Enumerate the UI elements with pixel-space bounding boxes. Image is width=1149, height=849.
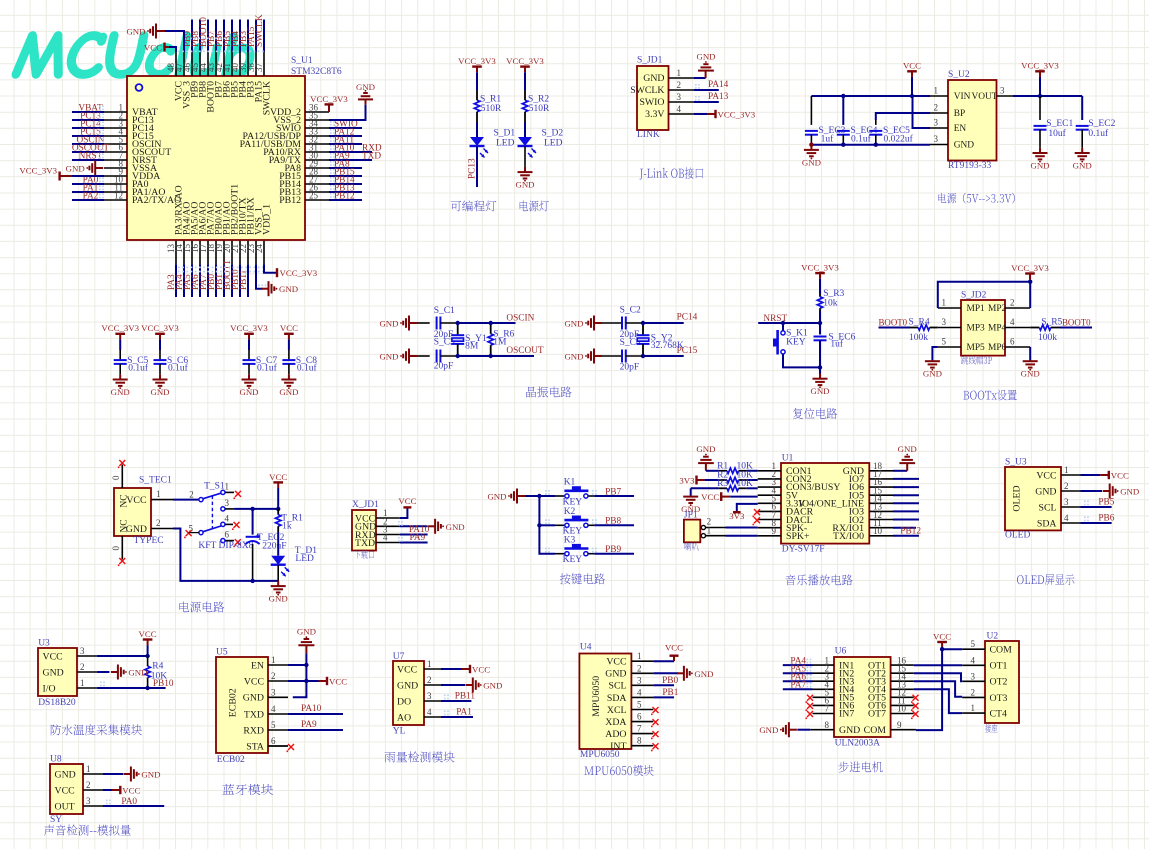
svg-text:GND: GND [810,386,829,396]
ground above U1 pin18 [893,470,907,472]
wire VCC_3V3 to S_C7 [248,339,250,350]
connector X_JD1 pin 4 TXD [376,542,400,544]
regulator S_U2 pin 1 VIN [930,95,948,97]
switch T_S1 pin 3 [225,508,234,510]
svg-text:24: 24 [254,244,264,254]
connector JP1 pin 1 [701,534,705,538]
svg-text:2: 2 [677,80,682,90]
imu U4 pin 4 SDA [632,696,654,698]
ground below S_JD2 pin6 [1029,359,1031,362]
music player U1 pin 11 RX/IO1 [869,527,893,529]
svg-text:S_C2: S_C2 [620,305,641,315]
mcu U1 pin 15 PA5/AO [191,241,193,265]
caption OLED display [1017,574,1074,585]
wire T_R1 to T_D1 [277,532,279,556]
svg-text:LED: LED [544,139,563,149]
wire U6 GND to ground [797,729,810,731]
driver U6 pin 5 IN5 [813,696,835,698]
wire VCC_3V3 to S_C6 [159,339,161,350]
capacitor S_C8 0.1uf [288,350,290,360]
svg-text:S_D1: S_D1 [494,129,516,139]
wire net PB4 above U1 [239,20,241,52]
power VCC_3V3 at U1 pin 36 [328,104,330,112]
mcu U1 pin 33 PA12/USB/DP [305,135,329,137]
caption power LED [520,200,549,211]
svg-text:3.3V: 3.3V [645,109,664,120]
wire net PA14 from S_JD1 pin2 [694,89,719,91]
driver U6 pin 11 OT6 [891,704,914,706]
svg-text:GND: GND [483,681,502,691]
svg-text:1: 1 [971,703,976,713]
svg-text:BOOT0: BOOT0 [1062,318,1091,328]
wires U1 IO pins right [893,478,919,480]
regulator S_U2 pin 2 BP [930,112,948,114]
ground left of S_C1 [409,322,417,324]
svg-text:5: 5 [942,337,947,347]
svg-text:VCC: VCC [1036,470,1056,481]
wire net PB7 from K1 [588,495,594,497]
wire S_U3 pin1 to VCC [1081,474,1101,476]
svg-text:20pF: 20pF [434,362,454,372]
connector X_JD1 pin 3 RXD [376,534,400,536]
svg-text:VCC_3V3: VCC_3V3 [19,166,57,176]
wire GND bus to S_U2 GND pin [811,144,930,146]
svg-text:VCC: VCC [398,496,416,506]
svg-text:GND: GND [239,387,258,397]
caption BOOTx setting [963,390,1016,401]
music player U1 pin 6 DACR [758,510,781,512]
bluetooth U5 pin 2 VCC [268,680,288,682]
driver U6 pin 1 IN1 [813,664,835,666]
svg-text:U2: U2 [987,632,999,642]
music player U1 pin 15 IO5 [869,494,893,496]
mcu U1 pin 2 PC13 [104,119,127,121]
mcu U1 pin 43 PB7 [215,52,217,77]
power VCC at U1 pin 48 [169,47,176,52]
svg-text:1: 1 [225,482,230,492]
imu U4 pin 8 INT [632,745,654,747]
wire net PA5 to U6 IN2 [783,672,813,674]
svg-text:SCL: SCL [609,681,627,692]
sensor U3 pin 1 I/O [77,687,97,689]
wire net PB1 below U1 pin 19 [223,264,225,297]
svg-text:3: 3 [934,134,939,144]
wire net VBAT to U1 pin 1 [72,111,104,113]
mcu U1 pin 21 PB10/TX [239,241,241,265]
wire net PC15 [643,355,684,357]
svg-text:0.1uf: 0.1uf [297,363,318,374]
connector S_JD1 pin 1 GND [669,77,695,79]
mcu U1 pin 26 PB13 [305,191,329,193]
mcu U1 pin 34 SWIO [305,127,329,129]
svg-text:S_R1: S_R1 [480,95,501,105]
power VCC above VIN [907,70,917,72]
svg-text:4: 4 [1064,513,1069,523]
capacitor S_EC5 0.022uf [875,120,877,125]
bluetooth U5 pin 4 TXD [268,713,288,715]
connector X_JD1 pin 1 VCC [376,517,400,519]
imu U4 pin 2 GND [632,672,654,674]
wire X_JD1 pin2 to ground [400,525,428,527]
no connect U6 IN5 IN6 IN7 [807,695,813,701]
svg-text:7: 7 [825,704,830,714]
svg-text:MP1: MP1 [967,304,986,314]
mcu U1 pin 10 PA0 [104,183,127,185]
svg-text:SCL: SCL [1039,502,1057,513]
caption music player circuit [785,574,852,585]
wire net PA8 from U1 pin 29 [329,167,362,169]
svg-text:PB0: PB0 [662,676,678,686]
svg-text:GND: GND [126,524,147,535]
svg-text:VCC: VCC [269,472,287,482]
no connect U6 OT5 OT6 OT7 [913,695,919,701]
svg-text:PC13: PC13 [468,158,478,179]
svg-text:STA: STA [246,741,264,752]
svg-text:2: 2 [1010,298,1015,308]
display S_U3 pin 3 SCL [1061,506,1081,508]
wire net NRST to U1 pin 7 [72,159,104,161]
wire U7 GND to ground [441,684,465,686]
svg-text:LED: LED [295,554,314,564]
wire U1 pin5 3.3V to 3V3 power [737,504,758,512]
wire S_JD2 pin6 to ground [1029,347,1031,360]
svg-text:PB11: PB11 [239,269,249,290]
svg-text:3: 3 [86,796,91,806]
ground left of keys [517,495,525,497]
svg-text:GND: GND [128,668,147,678]
imu U4 pin 7 ADO [632,733,654,735]
svg-text:0.1uf: 0.1uf [168,363,189,374]
svg-text:5: 5 [971,639,976,649]
wire VCC_3V3 to S_R3 [819,279,821,294]
mcu U1 pin 38 PA15 [255,52,257,77]
ground left of S_C2 [594,322,602,324]
mcu U1 pin 19 PB1/AO [223,241,225,265]
sensor U3 pin 3 VCC [77,655,97,657]
wire S_U3 pin2 to ground [1081,490,1103,492]
socket U2 pin 4 OT1 [962,664,985,666]
mcu U1 pin 22 PB11/RX [247,241,249,265]
wire U6 OT4 to U2 CT4 [914,689,963,713]
sensor U3 pin 2 GND [77,671,97,673]
svg-text:0.1uf: 0.1uf [128,363,149,374]
wire U6 OT3 to U2 OT3 [914,681,963,697]
svg-text:MP6: MP6 [988,343,1007,353]
wire net PA3 below U1 pin 13 [175,264,177,297]
wire net PB12 from U1 pin 25 [329,199,362,201]
svg-text:6: 6 [1010,337,1015,347]
svg-text:4: 4 [383,533,388,543]
svg-text:2: 2 [156,518,161,528]
svg-text:PB12: PB12 [900,527,921,537]
ground left of S_C3 [409,355,417,357]
svg-text:BP: BP [954,109,965,119]
music player U1 pin 5 3.3V [758,502,781,504]
capacitor S_EC1 10uf [1039,96,1041,120]
svg-text:GND: GND [397,680,418,691]
mcu U1 pin 47 VSS_3 [183,52,185,77]
resistor S_R1 510R [476,90,478,100]
svg-text:6: 6 [637,712,642,722]
svg-text:PB1: PB1 [662,688,678,698]
svg-text:3: 3 [271,687,276,697]
bluetooth U5 pin 6 STA [268,745,288,747]
wire net PA2 to U1 pin 12 [72,199,104,201]
svg-text:9: 9 [897,720,902,730]
svg-text:4: 4 [1010,317,1015,327]
svg-text:VIN: VIN [954,92,971,102]
svg-text:220uF: 220uF [262,542,286,552]
ground below S_C5 [119,374,121,379]
driver U6 pin 10 OT7 [891,713,914,715]
mcu U1 pin 41 PB5 [231,52,233,77]
capacitor S_C2 20pF [602,322,622,324]
svg-text:3: 3 [225,498,230,508]
wire net OSCIN to U1 pin 5 [72,143,104,145]
display S_U3 pin 4 SDA [1061,522,1081,524]
svg-text:TXD: TXD [362,152,381,162]
svg-text:4: 4 [637,687,642,697]
svg-text:2: 2 [427,675,432,685]
svg-text:VCC_3V3: VCC_3V3 [141,323,179,333]
driver U6 pin 14 OT3 [891,680,914,682]
regulator S_U2 pin 3 GND [930,144,948,146]
svg-text:3V3: 3V3 [679,476,695,486]
wire net PA9 from U5 RXD [288,729,343,731]
wire net PA7 below U1 pin 17 [207,264,209,297]
caption MPU6050 module [584,765,653,776]
svg-text:U6: U6 [835,647,847,657]
socket U2 body [985,641,1019,723]
svg-text:OUT: OUT [55,801,75,812]
wire net PA0 to U1 pin 10 [72,183,104,185]
wire GND to pin1 + resistor R1 10K [706,470,719,472]
svg-text:LINK: LINK [637,130,660,140]
svg-text:GND: GND [643,73,664,84]
mcu U1 pin 6 OSCOUT [104,151,127,153]
svg-text:4: 4 [427,707,432,717]
svg-text:4: 4 [971,655,976,665]
svg-text:JP1: JP1 [684,510,698,520]
wire ground bus to keys [525,495,539,497]
wire net PB14 from U1 pin 27 [329,183,362,185]
imu U4 MPU6050 body [579,654,631,750]
power VCC above S_C8 [284,333,294,335]
svg-text:VCC: VCC [144,43,162,53]
wire U3 VCC to R4 top [97,655,148,657]
wire net BOOT0 left [879,327,911,329]
svg-text:GND: GND [898,444,917,454]
svg-text:MP4: MP4 [988,324,1007,334]
connector S_TEC1 top pin 0 [121,465,123,488]
caption rain detection module [385,751,455,762]
wire net PB7 above U1 [215,20,217,52]
connector S_JD1 LINK body [637,66,669,130]
wire net NRST [758,322,820,324]
svg-text:GND: GND [297,627,316,637]
svg-text:VCC: VCC [244,676,264,687]
svg-text:GND: GND [759,725,778,735]
svg-text:PA2: PA2 [83,192,99,202]
svg-text:VCC: VCC [933,631,951,641]
svg-text:VCC: VCC [280,323,298,333]
crystal S_Y2 32.768K [642,323,644,335]
svg-text:8M: 8M [465,342,479,352]
svg-text:GND: GND [379,352,398,362]
sensor U8 pin 3 OUT [83,805,103,807]
svg-text:U5: U5 [216,648,228,658]
svg-text:GND: GND [923,369,942,379]
wire net PA9 from X_JD1 pin4 [400,542,428,544]
svg-text:GND: GND [356,82,375,92]
svg-text:PB12: PB12 [334,192,355,202]
svg-text:1M: 1M [493,338,507,348]
socket U2 pin 3 OT2 [962,680,985,682]
wire net PA6 to U6 IN3 [783,680,813,682]
svg-text:SWCLK: SWCLK [255,14,265,47]
wire net PB5 above U1 [231,20,233,52]
wire net PA1 from U7 AO [441,716,473,718]
connector S_TEC1 TYPEC body [114,488,151,536]
ground at U1 pin 35 VSS_2 [329,105,366,120]
wire U6 OT1 to U2 OT1 [914,664,963,666]
svg-text:EN: EN [954,124,967,134]
ground below S_EC3 [810,145,812,150]
led S_D1 [470,137,484,146]
power VCC_3V3 above S_C5 [115,333,125,335]
svg-text:PA0: PA0 [121,797,137,807]
svg-text:PC14: PC14 [677,312,698,322]
svg-text:VCC_3V3: VCC_3V3 [101,323,139,333]
svg-text:K1: K1 [564,478,576,488]
wire net PA4 below U1 pin 14 [183,264,185,297]
bluetooth U5 pin 1 EN [268,664,288,666]
svg-text:MP2: MP2 [988,304,1007,314]
wire net PB8 from K2 [588,524,594,526]
power VCC above stepper [937,641,947,643]
svg-text:SPK+: SPK+ [786,531,810,542]
svg-text:0: 0 [111,546,121,551]
wire X_JD1 pin1 to VCC [400,508,408,518]
mcu U1 pin 18 PB0/AO [215,241,217,265]
svg-text:GND: GND [141,770,160,780]
svg-text:VCC: VCC [122,786,140,796]
display S_U3 pin 1 VCC [1061,474,1081,476]
svg-text:XCL: XCL [607,705,627,716]
ground left of S_C4 [594,355,602,357]
svg-text:1uf: 1uf [821,134,835,145]
display S_U3 pin 2 GND [1061,490,1081,492]
wire net PB1 from U4 SDA [653,696,674,698]
mcu U1 pin 45 PB8 [199,52,201,77]
music player U1 pin 9 SPK+ [758,535,781,537]
svg-text:S_JD2: S_JD2 [961,291,987,301]
svg-text:4: 4 [677,104,682,114]
svg-text:U4: U4 [580,643,592,653]
svg-text:VCC: VCC [55,785,75,796]
driver U6 pin 8 GND [810,729,834,731]
svg-text:GND: GND [279,387,298,397]
svg-text:VCC: VCC [43,651,63,662]
music player U1 pin 3 CON3/BUSY [758,486,781,488]
svg-text:2: 2 [80,662,85,672]
regulator S_U2 pin 3 VOUT [997,95,1014,97]
music player U1 DY-SV17F body [781,463,869,544]
wire T_D1 to ground [277,565,279,581]
ground at U1 pin 8 VSSA [95,167,103,169]
socket U2 pin 5 COM [962,648,985,650]
power VCC_3V3 above R2 [520,65,530,67]
svg-text:DS18B20: DS18B20 [38,698,76,708]
svg-text:2: 2 [86,780,91,790]
svg-text:1: 1 [934,86,939,96]
music player U1 pin 13 IO3 [869,510,893,512]
mcu U1 pin 39 PB3 [247,52,249,77]
svg-text:COM: COM [864,725,887,736]
capacitor S_EC2 0.1uf [1081,96,1083,120]
wire net OSCOUT to U1 pin 6 [72,151,104,153]
wire net PB10 below U1 pin 21 [239,264,241,297]
mcu U1 pin 32 PA11/USB/DM [305,143,329,145]
svg-text:U3: U3 [38,639,50,649]
svg-text:510R: 510R [481,104,502,114]
wire net BOOT0 above U1 [207,20,209,52]
sensor U3 DS18B20 body [38,648,77,696]
driver U6 pin 9 COM [891,729,916,731]
wire net BOOT0 right [1060,327,1092,329]
svg-text:PA13: PA13 [708,92,729,102]
mcu U1 pin 37 SWCLK [263,52,265,77]
svg-text:GND: GND [243,693,264,704]
no connect U5 STA [268,745,288,747]
wire net PC15 to U1 pin 4 [72,135,104,137]
music player U1 pin 2 CON2 [758,478,781,480]
capacitor S_EC3 1uf [810,96,812,125]
svg-text:VCC: VCC [665,643,683,653]
wire net PA11 from U1 pin 32 [329,143,362,145]
capacitor S_EC4 0.1uf [842,96,844,125]
music player U1 pin 4 5V [758,494,781,496]
display S_U3 OLED body [1005,467,1061,530]
svg-text:7: 7 [637,724,642,734]
wire ground bus bluetooth [293,653,307,697]
socket U2 pin 1 CT4 [962,712,985,714]
connector S_JD1 pin 3 SWIO [669,101,695,103]
svg-text:MP3: MP3 [967,324,986,334]
svg-text:PA7: PA7 [790,681,806,691]
svg-text:EN: EN [251,660,264,671]
wire TYPEC VCC to switch T_S1 pin2 [173,499,199,501]
svg-text:VCC_3V3: VCC_3V3 [1021,61,1059,71]
svg-text:510R: 510R [529,104,550,114]
svg-text:10: 10 [873,526,883,536]
svg-text:INT: INT [610,741,626,752]
svg-text:2: 2 [971,687,976,697]
svg-text:S_C1: S_C1 [434,306,455,316]
power VCC_3V3 above S_C6 [155,333,165,335]
svg-text:2: 2 [934,103,939,113]
svg-text:OSCOUT: OSCOUT [506,346,544,356]
wire net PA0 from U8 OUT [103,805,164,807]
svg-text:0.1uf: 0.1uf [257,363,278,374]
wire VCC to U2 COM and U6 COM [942,648,962,650]
wire VOUT to output caps [1013,95,1082,97]
svg-text:3: 3 [1000,86,1005,96]
svg-text:VCC: VCC [1111,471,1129,481]
svg-text:6: 6 [225,530,230,540]
junction VOUT/EC1 [1038,94,1042,98]
svg-text:VCC: VCC [139,629,157,639]
